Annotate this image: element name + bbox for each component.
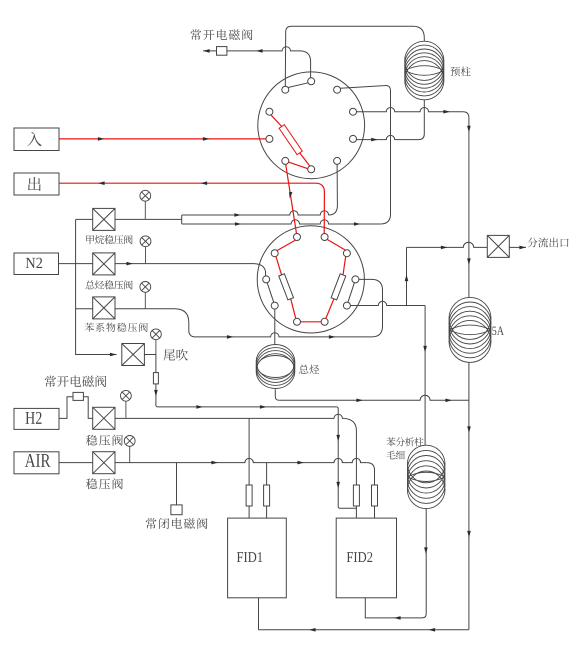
wire: V2 jumper p6-p8 (348, 283, 355, 303)
rotor(red): V2 p1->p3 (277, 240, 296, 251)
rotor(red): V2 p10->loop->p4 (326, 299, 334, 319)
gauge G1 (140, 190, 151, 219)
wire: NC-solenoid drop (176, 463, 178, 505)
label: total-HC regulator (85, 280, 132, 289)
solenoid NO (top) (217, 47, 227, 56)
coil: total hydrocarbon 总烃 (256, 345, 295, 389)
label: total HC (299, 365, 319, 375)
label: methane regulator (86, 235, 132, 244)
rotor(red): V2 p9->p10 (301, 321, 322, 323)
valve: split outlet (487, 235, 509, 257)
coil: benzene analysis column (407, 445, 445, 508)
wire: V2.p8 -> split/benzene column (350, 301, 425, 305)
label: AIR regulator (86, 478, 123, 489)
valve: AIR regulator 稳压阀 (93, 452, 115, 474)
restrictor FID2 right (372, 485, 378, 506)
wire: V2.p7 -> total-HC coil (274, 309, 276, 345)
wire(red): V2.p2 -> sample out (59, 183, 324, 233)
gauge G3 (140, 282, 151, 309)
gauge G5 (121, 390, 132, 417)
label: benzene regulator (85, 323, 148, 332)
label: out (28, 177, 41, 191)
gauge G4 (151, 329, 162, 355)
box: N2 (14, 253, 59, 275)
rotor(red): V2 p4->p2 (327, 239, 345, 250)
label: H2 (26, 412, 42, 424)
label: NO solenoid (top) (190, 29, 252, 40)
valve: H2 regulator 稳压阀 (93, 407, 115, 429)
box: sample out 出 (14, 173, 59, 195)
wire: V2 jumper p5-p7 (267, 283, 274, 303)
label: NO solenoid (H2) (45, 375, 107, 387)
label: FID1 (237, 552, 262, 562)
label: 5A (492, 327, 504, 336)
label: N2 (26, 258, 42, 268)
coil: 5A molecular sieve (449, 297, 491, 362)
gauge G6 (124, 436, 135, 463)
label: tail blow (163, 349, 187, 361)
wire: H2 supply (59, 397, 93, 419)
label: NC solenoid (146, 518, 208, 529)
wire: right rail below 5A -> FID1 bottom (468, 362, 470, 629)
rotor(red): V2 p3->loop->p9 (276, 256, 282, 275)
wire: benzene regulator -> V2.p6 (359, 279, 383, 337)
box: H2 (14, 408, 59, 429)
wire: V1.p1 -> precolumn coil (285, 26, 424, 86)
wire: V1.p4 -> right rail (357, 107, 463, 111)
valve V1 (10-port, upper) (258, 72, 365, 179)
wire: FID1 right tube (266, 463, 268, 485)
rotor(red): V1 loop p10->p7 (271, 115, 282, 127)
wire: tail-blow line (144, 354, 156, 356)
label: split outlet (528, 238, 569, 248)
detector FID1 (228, 518, 287, 598)
restrictor FID1 left (246, 485, 252, 506)
valve: methane regulator 甲烷稳压阀 (93, 208, 115, 230)
wire(red): sample in -> V1.p9 (59, 138, 266, 140)
wire: FID1 left tube (248, 418, 250, 485)
solenoid NC (171, 505, 182, 515)
valve: total-HC regulator 总烃稳压阀 (93, 253, 115, 275)
wire(red): V1.p8 -> V2.p1 (286, 164, 297, 233)
wire: precolumn tail -> V1.p5 (419, 100, 425, 140)
wire: total-HC coil tail -> right rail (275, 389, 279, 400)
wire: V1.p6 -> methane line A (328, 164, 337, 215)
valve V2 (10-port, lower) (257, 226, 364, 333)
solenoid NO (H2) (73, 392, 83, 400)
rotor(red): V1 jumper p8->p7 (289, 162, 308, 169)
wire: V1.p3 -> methane line B (340, 85, 390, 224)
label: benzene column (386, 437, 423, 446)
label: H2 regulator (86, 435, 123, 446)
label: AIR (25, 454, 51, 467)
label: capillary (386, 451, 404, 460)
detector FID2 (336, 518, 396, 598)
wire: benzene coil -> FID2 bottom (365, 509, 426, 618)
label: precolumn (450, 67, 470, 77)
wire: V1 jumper p1-p2 (288, 83, 308, 88)
valve: benzene regulator 苯系物稳压阀 (93, 297, 115, 319)
wire: total-HC regulator -> V2.p5 (115, 263, 253, 265)
box: AIR (14, 452, 59, 474)
valve: tail blow 尾吹 (122, 344, 145, 366)
coil: precolumn 预柱 (405, 41, 444, 100)
restrictor FID2 left (353, 485, 359, 506)
wire: AIR supply (59, 462, 93, 464)
restrictor (tail blow) (153, 373, 158, 384)
wire: methane valve output split (115, 218, 182, 220)
wire: split vent line (406, 247, 408, 305)
restrictor FID1 right (264, 485, 270, 506)
wire: NO-solenoid vent line (203, 47, 300, 51)
box: sample in 入 (14, 128, 59, 151)
label: in (27, 132, 42, 146)
gauge G2 (140, 236, 151, 264)
wire: N2 manifold (59, 263, 93, 265)
label: FID2 (347, 552, 373, 562)
